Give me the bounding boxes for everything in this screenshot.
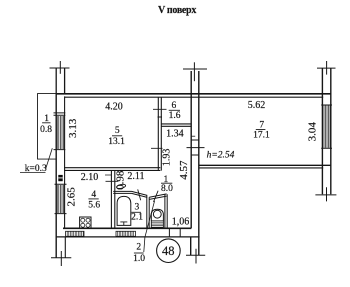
wall bathroom top bbox=[113, 191, 147, 197]
window left wall room5 bbox=[54, 113, 66, 150]
wall room5 right bbox=[158, 97, 161, 171]
svg-text:2.11: 2.11 bbox=[127, 171, 144, 182]
toilet fixture bbox=[151, 209, 163, 221]
underline k=0.3 bbox=[20, 172, 46, 174]
axis mini line top-right bbox=[326, 61, 328, 75]
axis mini line bottom-central bbox=[195, 249, 197, 264]
svg-text:48: 48 bbox=[162, 244, 175, 258]
axis tick bottom-left bbox=[51, 257, 71, 259]
svg-text:0.8: 0.8 bbox=[40, 125, 52, 135]
axis tick top-left bbox=[50, 67, 70, 69]
svg-text:3.04: 3.04 bbox=[307, 122, 319, 142]
entry door jambs bbox=[169, 228, 180, 237]
axis mini line top-central bbox=[193, 62, 195, 81]
door marks room5 right wall bbox=[151, 109, 167, 148]
svg-text:3.13: 3.13 bbox=[67, 118, 79, 138]
svg-text:k=0.3: k=0.3 bbox=[25, 164, 47, 174]
door marks central wall bbox=[187, 140, 205, 155]
wall top outer bbox=[56, 93, 331, 95]
svg-text:1.34: 1.34 bbox=[166, 129, 184, 140]
svg-text:1.0: 1.0 bbox=[133, 254, 145, 264]
wall bottom outer bbox=[56, 236, 199, 238]
svg-text:h=2.54: h=2.54 bbox=[207, 150, 235, 160]
axis mini line bottom-left bbox=[60, 251, 62, 266]
svg-text:2: 2 bbox=[136, 243, 141, 253]
axis mini line top-left bbox=[59, 61, 61, 74]
svg-text:2.10: 2.10 bbox=[81, 172, 99, 183]
door slash bathroom bbox=[138, 189, 141, 200]
dim tick 0.98 bbox=[105, 175, 118, 181]
window bottom kitchen bbox=[66, 231, 84, 236]
wall right outer bbox=[322, 69, 330, 195]
svg-text:1,06: 1,06 bbox=[172, 216, 190, 227]
wall left outer bbox=[55, 94, 57, 258]
svg-text:4.57: 4.57 bbox=[178, 160, 190, 180]
svg-text:5: 5 bbox=[115, 126, 120, 136]
washbasin bbox=[116, 184, 126, 190]
svg-text:17.1: 17.1 bbox=[253, 131, 270, 141]
wall bottom inner bbox=[63, 227, 191, 229]
axis tick top-right bbox=[317, 67, 336, 69]
svg-text:1.6: 1.6 bbox=[169, 111, 181, 121]
window right wall bbox=[321, 105, 332, 148]
axis tick bottom-right bbox=[315, 194, 336, 196]
wall room5 bottom bbox=[64, 168, 160, 171]
wall toilet top bbox=[149, 194, 166, 200]
svg-text:8.0: 8.0 bbox=[161, 184, 173, 194]
axis mini line bottom-right bbox=[326, 187, 328, 201]
leader k=0.3 bbox=[46, 148, 53, 169]
wall room6 bottom bbox=[161, 124, 191, 126]
svg-text:6: 6 bbox=[172, 101, 177, 111]
wall left inner bbox=[64, 96, 67, 257]
window bottom bathroom bbox=[116, 231, 136, 236]
bathtub bbox=[117, 196, 131, 225]
axis tick top-central bbox=[183, 68, 207, 70]
svg-text:0.98: 0.98 bbox=[115, 170, 127, 190]
axis tick bottom-central bbox=[186, 254, 205, 256]
wall central (inter-apartment) bbox=[191, 71, 199, 255]
leader room2 bbox=[144, 201, 155, 252]
svg-text:1: 1 bbox=[44, 114, 49, 124]
apartment number circle 48 bbox=[157, 239, 181, 263]
svg-text:2.1: 2.1 bbox=[131, 213, 143, 223]
svg-text:3: 3 bbox=[135, 203, 140, 213]
door slash toilet bbox=[154, 191, 159, 202]
wall toilet right bbox=[165, 194, 167, 228]
svg-text:V поверх: V поверх bbox=[158, 5, 196, 16]
vent block left wall bbox=[58, 175, 62, 181]
wall kitchen right bbox=[111, 171, 114, 229]
window left wall kitchen bbox=[55, 184, 67, 213]
svg-text:1.93: 1.93 bbox=[162, 149, 173, 167]
wall top inner bbox=[65, 96, 324, 98]
svg-text:4.20: 4.20 bbox=[105, 102, 123, 113]
balcony outline bbox=[38, 94, 57, 160]
dim tick 1.34 bbox=[192, 135, 196, 137]
wall axis stub top-left bbox=[56, 68, 64, 94]
svg-text:5.62: 5.62 bbox=[248, 100, 266, 111]
wall toilet left bbox=[147, 195, 149, 228]
wall room7 bottom bbox=[199, 164, 332, 166]
svg-text:2.65: 2.65 bbox=[66, 187, 78, 207]
svg-text:5.6: 5.6 bbox=[88, 201, 100, 211]
stove bbox=[80, 217, 91, 228]
svg-text:13.1: 13.1 bbox=[108, 137, 125, 147]
